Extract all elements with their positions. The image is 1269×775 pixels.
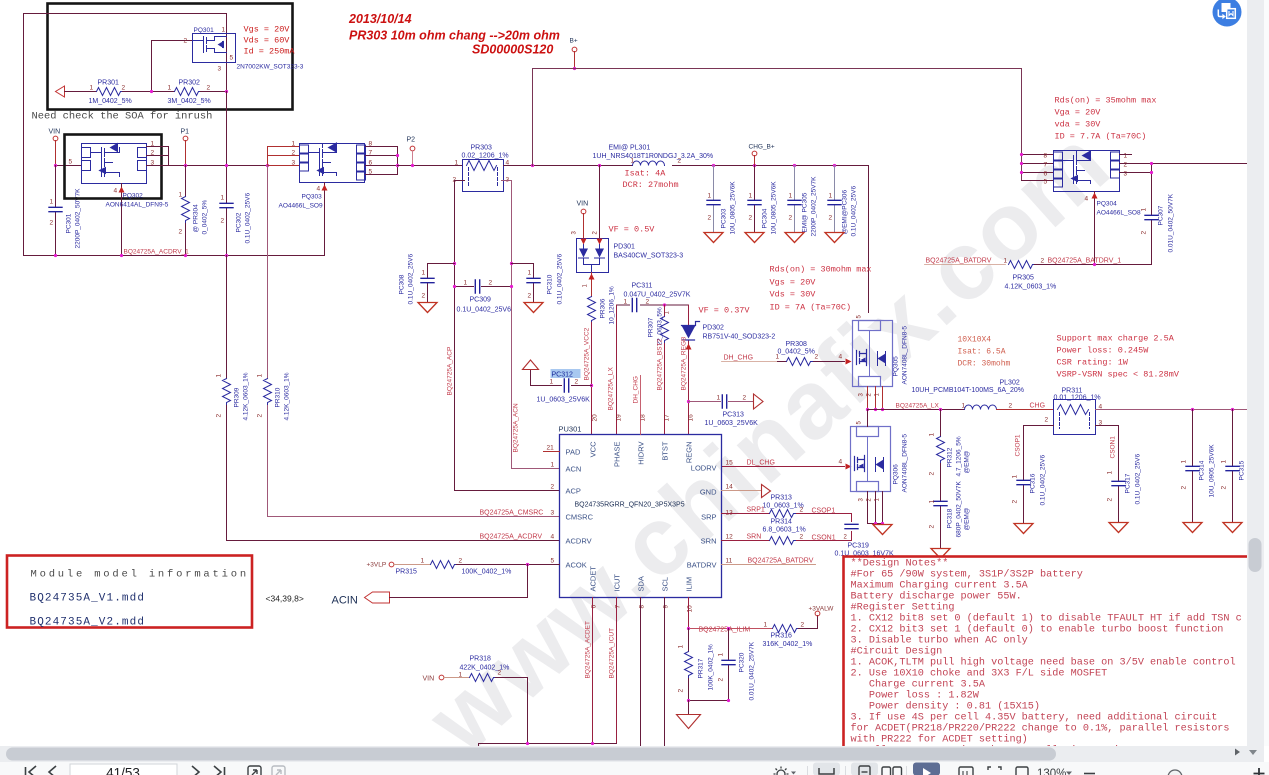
svg-text:ID = 7A (Ta=70C): ID = 7A (Ta=70C) xyxy=(770,303,852,313)
left pin names xyxy=(566,441,718,592)
junction xyxy=(687,627,690,630)
svg-text:PC301: PC301 xyxy=(66,213,73,233)
transistor PQ301 2N7002KW xyxy=(193,34,236,63)
svg-text:1: 1 xyxy=(1221,460,1228,464)
svg-text:10X10X4: 10X10X4 xyxy=(958,336,992,345)
resistor PR317 xyxy=(688,629,690,713)
svg-text:2: 2 xyxy=(929,472,936,476)
svg-text:PQ303: PQ303 xyxy=(302,194,323,201)
svg-text:HIDRV: HIDRV xyxy=(637,442,646,465)
separator xyxy=(807,766,809,775)
ground xyxy=(1014,524,1033,534)
svg-text:PR305: PR305 xyxy=(1013,275,1035,282)
svg-text:SDA: SDA xyxy=(637,576,646,591)
svg-text:AON6414AL_DFN9-5: AON6414AL_DFN9-5 xyxy=(106,202,169,209)
svg-text:1: 1 xyxy=(1107,471,1114,475)
svg-text:2: 2 xyxy=(292,150,296,157)
ground xyxy=(785,233,804,243)
wire REGN vertical xyxy=(688,305,690,435)
resistor PR303 sense xyxy=(463,160,504,192)
resistor PR311 sense xyxy=(1054,400,1096,435)
svg-text:BQ24725A_BST2: BQ24725A_BST2 xyxy=(657,338,664,390)
capacitor PC306 xyxy=(834,166,836,232)
svg-text:16: 16 xyxy=(688,414,695,422)
svg-text:2: 2 xyxy=(789,215,793,222)
capacitor PC303 xyxy=(713,166,715,232)
resistor xyxy=(264,379,272,405)
svg-text:4: 4 xyxy=(1085,196,1089,203)
svg-text:Support max charge 2.5A: Support max charge 2.5A xyxy=(1057,334,1175,344)
svg-text:RB751V-40_SOD323-2: RB751V-40_SOD323-2 xyxy=(703,334,776,341)
resistor PR304 xyxy=(185,166,187,256)
svg-text:REGN: REGN xyxy=(685,442,694,464)
svg-text:Vds = 60V: Vds = 60V xyxy=(244,36,291,46)
resistor PR306 xyxy=(588,297,596,323)
svg-text:VF = 0.37V: VF = 0.37V xyxy=(699,306,751,316)
wire HIDRV stub + DH_CHG vertical label xyxy=(640,376,642,435)
svg-text:10U_0805_25V6K: 10U_0805_25V6K xyxy=(730,181,737,235)
junction xyxy=(939,408,942,411)
svg-text:4.12K_0603_1%: 4.12K_0603_1% xyxy=(1005,284,1057,291)
op-amp U1 : charger controller PU301 xyxy=(560,435,722,598)
svg-text:EMI@ PC305: EMI@ PC305 xyxy=(802,192,809,232)
svg-text:2: 2 xyxy=(575,379,579,386)
wire LODRV to gate xyxy=(722,466,845,468)
resistor xyxy=(223,379,231,405)
zoom slider knob xyxy=(1168,770,1182,775)
net GND pin14 xyxy=(722,490,762,492)
inductor PL302 xyxy=(965,405,997,409)
svg-text:PQ302: PQ302 xyxy=(123,193,144,200)
junction xyxy=(526,563,529,566)
svg-text:PR312: PR312 xyxy=(947,447,954,467)
svg-text:CHG: CHG xyxy=(1030,403,1046,410)
svg-text:1: 1 xyxy=(1012,475,1019,479)
svg-text:ID = 7.7A (Ta=70C): ID = 7.7A (Ta=70C) xyxy=(1055,132,1147,142)
svg-text:VSRP-VSRN spec < 81.28mV: VSRP-VSRN spec < 81.28mV xyxy=(1057,370,1180,380)
svg-text:1: 1 xyxy=(464,280,468,287)
svg-text:1: 1 xyxy=(216,374,223,378)
svg-text:1: 1 xyxy=(455,160,459,167)
svg-text:1: 1 xyxy=(764,622,768,629)
svg-text:PR307: PR307 xyxy=(648,317,655,337)
wire main input rail xyxy=(56,165,82,167)
svg-text:@ PR304: @ PR304 xyxy=(193,204,200,233)
capacitor PC305 xyxy=(794,166,796,232)
svg-text:ILIM: ILIM xyxy=(685,577,694,592)
svg-text:@EMI@PC306: @EMI@PC306 xyxy=(842,189,849,234)
play/present button xyxy=(913,763,940,775)
junction xyxy=(866,408,869,411)
svg-text:PC317: PC317 xyxy=(1125,473,1132,493)
svg-text:3: 3 xyxy=(218,66,222,73)
capacitor PC320 xyxy=(689,629,729,701)
junction xyxy=(573,67,576,70)
svg-text:1: 1 xyxy=(678,645,685,649)
svg-text:BQ24725A_ILIM: BQ24725A_ILIM xyxy=(699,627,751,634)
svg-text:BQ24725A_ACDRV_1: BQ24725A_ACDRV_1 xyxy=(124,249,190,256)
svg-text:1: 1 xyxy=(708,193,712,200)
svg-text:PR315: PR315 xyxy=(396,569,418,576)
svg-text:Vgs = 20V: Vgs = 20V xyxy=(244,25,291,35)
undo icon xyxy=(248,766,261,775)
svg-text:7: 7 xyxy=(615,605,622,609)
capacitor PC317 xyxy=(1112,481,1125,485)
junction xyxy=(1191,408,1194,411)
svg-text:0_0402_5%: 0_0402_5% xyxy=(778,349,815,356)
svg-text:4: 4 xyxy=(839,354,843,361)
svg-text:SRP: SRP xyxy=(701,513,716,522)
capacitor xyxy=(934,501,947,505)
diode PD301 BAS40CW xyxy=(577,239,609,273)
svg-text:PR303: PR303 xyxy=(471,145,493,152)
svg-text:SRP1: SRP1 xyxy=(747,507,765,514)
capacitor PC307 xyxy=(1145,215,1158,219)
wire PAD stub xyxy=(544,451,560,453)
wire VIN down xyxy=(55,141,57,166)
wire ACP kelvin from PR303 pin2 xyxy=(455,181,560,491)
net CSOP1 from pin2 xyxy=(1024,426,1054,523)
watermark www.chinafix.com xyxy=(406,107,1130,774)
translate floating button xyxy=(1213,0,1242,27)
capacitor PC312 (highlighted) xyxy=(531,370,592,386)
svg-text:4.7_1206_5%: 4.7_1206_5% xyxy=(956,436,963,476)
svg-text:BQ24735A_V1.mdd: BQ24735A_V1.mdd xyxy=(30,593,146,605)
svg-text:1: 1 xyxy=(1181,460,1188,464)
svg-text:PC315: PC315 xyxy=(1239,460,1246,480)
svg-text:2: 2 xyxy=(498,670,502,677)
svg-text:Battery discharge power 55W.: Battery discharge power 55W. xyxy=(851,591,1022,603)
svg-text:BATDRV: BATDRV xyxy=(687,561,717,570)
svg-text:CSOP1: CSOP1 xyxy=(812,508,836,515)
svg-text:10_0603_1%: 10_0603_1% xyxy=(763,503,804,510)
ground PC308 xyxy=(418,303,437,313)
node junction main xyxy=(266,164,269,167)
svg-text:<34,39,8>: <34,39,8> xyxy=(266,594,304,604)
svg-text:2: 2 xyxy=(184,38,188,45)
svg-text:PR309: PR309 xyxy=(234,387,241,407)
svg-text:Isat: 4A: Isat: 4A xyxy=(625,169,667,179)
svg-text:VF = 0.5V: VF = 0.5V xyxy=(609,225,656,235)
node source junction xyxy=(225,90,228,93)
svg-text:Isat: 6.5A: Isat: 6.5A xyxy=(958,348,1006,357)
svg-text:PR318: PR318 xyxy=(470,656,492,663)
resistor xyxy=(937,437,945,463)
svg-text:3: 3 xyxy=(151,160,155,167)
svg-text:Vga = 20V: Vga = 20V xyxy=(1055,108,1102,118)
svg-text:0.1U_0402_25V6: 0.1U_0402_25V6 xyxy=(557,254,564,305)
svg-text:2. CX12 bit3 set 1 (default 0): 2. CX12 bit3 set 1 (default 0) to enable… xyxy=(851,624,1224,636)
svg-text:1: 1 xyxy=(1141,208,1148,212)
svg-text:1: 1 xyxy=(624,299,628,306)
svg-text:DL_CHG: DL_CHG xyxy=(747,460,775,467)
wire PQ301 source to PR302 xyxy=(226,63,228,92)
svg-text:2: 2 xyxy=(749,215,753,222)
resistor PR307 xyxy=(661,317,669,343)
svg-text:ACN: ACN xyxy=(566,465,582,474)
wire BTST vertical xyxy=(664,305,666,435)
svg-text:0.01U_0402_25V7K: 0.01U_0402_25V7K xyxy=(749,641,756,700)
terminal xyxy=(439,675,444,680)
transistor PQ305 AON7408L xyxy=(853,321,893,387)
wire gate from PR301/PR302 junction xyxy=(152,41,193,92)
svg-text:1: 1 xyxy=(550,379,554,386)
svg-text:AO4466L_SO9: AO4466L_SO9 xyxy=(279,203,323,210)
svg-text:PC309: PC309 xyxy=(470,297,492,304)
wire LX rail xyxy=(868,409,965,411)
svg-text:VIN: VIN xyxy=(423,676,435,683)
svg-text:Power loss: 0.245W: Power loss: 0.245W xyxy=(1057,346,1150,356)
black frame box PQ302 xyxy=(65,135,162,199)
svg-text:Need check the SOA for inrush: Need check the SOA for inrush xyxy=(32,111,213,123)
svg-text:DCR: 30mohm: DCR: 30mohm xyxy=(958,360,1011,369)
terminal xyxy=(410,146,415,151)
svg-text:BQ24725A_ACDRV: BQ24725A_ACDRV xyxy=(480,534,543,541)
svg-text:2: 2 xyxy=(122,85,126,92)
capacitor PC315 xyxy=(1232,410,1234,522)
svg-text:PC303: PC303 xyxy=(721,208,728,228)
junction xyxy=(687,699,690,702)
ground xyxy=(825,233,844,243)
svg-text:PU301: PU301 xyxy=(559,425,582,434)
wire output to right edge xyxy=(1096,409,1247,411)
svg-text:PC304: PC304 xyxy=(762,208,769,228)
svg-text:B+: B+ xyxy=(570,38,578,45)
horizontal scrollbar track xyxy=(0,746,1264,762)
capacitor PC309 xyxy=(455,286,512,288)
svg-text:2: 2 xyxy=(459,558,463,565)
svg-text:2: 2 xyxy=(551,484,555,491)
single page button (active) xyxy=(851,763,878,775)
svg-text:2: 2 xyxy=(829,215,833,222)
separator xyxy=(906,766,908,775)
svg-text:4.12K_0603_1%: 4.12K_0603_1% xyxy=(284,372,291,420)
junction xyxy=(526,742,529,745)
svg-text:DH_CHG: DH_CHG xyxy=(724,355,754,362)
wire main rail to P1 xyxy=(169,165,268,167)
transistor PQ304 AO4466L xyxy=(1054,151,1120,192)
capacitor PC319 xyxy=(845,524,858,528)
svg-text:2: 2 xyxy=(179,229,183,236)
svg-text:#Register Setting: #Register Setting xyxy=(851,602,955,614)
svg-text:2: 2 xyxy=(801,622,805,629)
resistor PR305 xyxy=(1009,261,1035,269)
svg-text:5: 5 xyxy=(230,55,234,62)
vertical scrollbar track xyxy=(1247,0,1264,746)
svg-text:6.8_0603_1%: 6.8_0603_1% xyxy=(763,527,806,534)
svg-text:1: 1 xyxy=(776,354,780,361)
resistor xyxy=(431,561,457,569)
svg-text:SD00000S120: SD00000S120 xyxy=(472,43,553,57)
svg-text:1U_0603_25V6K: 1U_0603_25V6K xyxy=(537,397,591,404)
svg-text:0.1U_0402_25V6: 0.1U_0402_25V6 xyxy=(408,254,415,305)
svg-text:1: 1 xyxy=(528,270,532,277)
svg-text:CHG_B+: CHG_B+ xyxy=(749,144,775,151)
svg-text:for ACDET(PR218/PR220/PR222 ch: for ACDET(PR218/PR220/PR222 change to 0.… xyxy=(851,723,1230,735)
actual size icon xyxy=(959,767,973,775)
two page button xyxy=(882,767,902,775)
resistor xyxy=(770,537,796,545)
svg-text:BTST: BTST xyxy=(661,441,670,461)
svg-text:BQ24725A_LX: BQ24725A_LX xyxy=(896,403,940,410)
junction xyxy=(1150,162,1153,165)
svg-text:PC314: PC314 xyxy=(1199,460,1206,480)
svg-text:PR313: PR313 xyxy=(771,495,793,502)
svg-text:Charge current 3.5A: Charge current 3.5A xyxy=(851,679,986,691)
svg-text:PHASE: PHASE xyxy=(613,442,622,467)
svg-text:PQ301: PQ301 xyxy=(194,27,215,34)
svg-text:PQ306: PQ306 xyxy=(893,464,900,485)
svg-text:BQ24735RGRR_QFN20_3P5X3P5: BQ24735RGRR_QFN20_3P5X3P5 xyxy=(575,502,685,509)
svg-text:AO4466L_SO8: AO4466L_SO8 xyxy=(1097,210,1141,217)
svg-text:6: 6 xyxy=(1044,171,1048,178)
svg-text:11: 11 xyxy=(726,558,733,565)
svg-text:CSR rating: 1W: CSR rating: 1W xyxy=(1057,358,1129,368)
resistor PR308 xyxy=(778,361,845,363)
svg-text:7: 7 xyxy=(1044,162,1048,169)
wire ACDRV bus xyxy=(24,255,325,257)
svg-text:SRN: SRN xyxy=(701,537,717,546)
svg-text:PC313: PC313 xyxy=(723,412,745,419)
svg-text:0.1U_0402_25V6: 0.1U_0402_25V6 xyxy=(1135,454,1142,505)
svg-text:3. If use 4S per cell 4.35V ba: 3. If use 4S per cell 4.35V battery, nee… xyxy=(851,712,1218,724)
junction xyxy=(874,522,877,525)
black frame box (inrush checker) xyxy=(48,4,293,110)
power symbol up xyxy=(523,360,539,370)
svg-text:PR302: PR302 xyxy=(179,80,201,87)
svg-text:2: 2 xyxy=(815,354,819,361)
svg-text:Vds = 30V: Vds = 30V xyxy=(770,290,817,300)
net SDA vertical xyxy=(640,598,642,746)
terminal xyxy=(581,209,586,214)
ground xyxy=(931,549,950,559)
svg-text:PC302: PC302 xyxy=(236,212,243,232)
svg-text:2. Use 10X10 choke and 3X3 F/L: 2. Use 10X10 choke and 3X3 F/L side MOSF… xyxy=(851,668,1108,680)
capacitor PC302 xyxy=(226,92,228,256)
svg-text:PAD: PAD xyxy=(566,448,581,457)
capacitor PC311 xyxy=(632,299,636,312)
svg-text:Vgs = 20V: Vgs = 20V xyxy=(770,278,817,288)
pin stubs PQ302 right xyxy=(147,147,169,166)
svg-text:2: 2 xyxy=(1141,231,1148,235)
svg-text:12: 12 xyxy=(726,534,734,541)
net SRP pin13 / resistor PR314a xyxy=(722,514,852,522)
svg-text:2: 2 xyxy=(800,534,804,541)
svg-text:422K_0402_1%: 422K_0402_1% xyxy=(460,665,510,672)
svg-text:#Circuit Design: #Circuit Design xyxy=(851,646,943,658)
svg-text:BQ24725A_BATDRV: BQ24725A_BATDRV xyxy=(926,258,992,265)
svg-text:0.1U_0402_25V6: 0.1U_0402_25V6 xyxy=(457,307,512,314)
wire PQ301 drain stub xyxy=(226,14,228,63)
svg-text:AON7408L_DFN8-5: AON7408L_DFN8-5 xyxy=(902,434,909,493)
svg-text:BQ24725A_REGB: BQ24725A_REGB xyxy=(681,337,688,391)
capacitor PC316 xyxy=(1017,480,1030,484)
svg-text:2: 2 xyxy=(1107,498,1114,502)
first page button xyxy=(26,766,37,775)
wire PQ302 source down xyxy=(121,184,123,256)
svg-text:BQ24725A_ACP: BQ24725A_ACP xyxy=(447,347,454,396)
redo icon (disabled) xyxy=(272,766,285,775)
wires PQ305 bottom pins xyxy=(868,387,883,410)
svg-text:@EM@: @EM@ xyxy=(964,450,971,473)
wire PHASE vertical xyxy=(616,305,618,435)
svg-text:10UH_PCMB104T-100MS_6A_20%: 10UH_PCMB104T-100MS_6A_20% xyxy=(912,387,1024,394)
ground xyxy=(1109,523,1128,533)
svg-text:BQ24725A_BATDRV: BQ24725A_BATDRV xyxy=(748,558,814,565)
svg-text:2N7002KW_SOT323-3: 2N7002KW_SOT323-3 xyxy=(237,64,304,71)
svg-text:**Design Notes**: **Design Notes** xyxy=(851,558,949,570)
svg-text:6: 6 xyxy=(591,605,598,609)
svg-text:PC308: PC308 xyxy=(399,274,406,294)
svg-text:1: 1 xyxy=(257,374,264,378)
svg-text:2: 2 xyxy=(1221,486,1228,490)
svg-text:PL302: PL302 xyxy=(1000,380,1020,387)
wire B+ bus xyxy=(533,69,1022,181)
net SRN pin12 / resistor PR314b xyxy=(722,532,852,541)
pin stubs PQ303 left xyxy=(268,147,300,166)
net CSON1 from pin3 xyxy=(1096,426,1119,522)
junction xyxy=(225,164,228,167)
svg-text:@EM@: @EM@ xyxy=(964,507,971,530)
capacitor PC310 xyxy=(512,264,534,302)
transistor PQ302 AON6414AL xyxy=(82,144,147,184)
svg-text:1: 1 xyxy=(50,199,54,206)
svg-text:BQ24725A_LX: BQ24725A_LX xyxy=(608,366,615,410)
svg-text:VCC: VCC xyxy=(589,441,598,457)
svg-text:2: 2 xyxy=(800,507,804,514)
last page button xyxy=(214,766,225,775)
terminal xyxy=(815,611,820,616)
svg-text:PC311: PC311 xyxy=(632,283,653,290)
junction xyxy=(663,303,666,306)
svg-text:3. Disable turbo when AC only: 3. Disable turbo when AC only xyxy=(851,635,1028,647)
svg-text:1: 1 xyxy=(789,193,793,200)
svg-text:PR314: PR314 xyxy=(771,519,793,526)
junction xyxy=(1020,153,1023,156)
svg-text:BQ24725A_CMSRC: BQ24725A_CMSRC xyxy=(480,510,544,517)
svg-text:PC319: PC319 xyxy=(848,543,870,550)
svg-text:DCR: 27mohm: DCR: 27mohm xyxy=(623,180,679,190)
inductor PL301 xyxy=(633,161,665,166)
svg-text:PC310: PC310 xyxy=(547,274,554,294)
svg-text:Power loss : 1.82W: Power loss : 1.82W xyxy=(851,690,980,702)
svg-text:100K_0402_1%: 100K_0402_1% xyxy=(462,569,512,576)
svg-text:10_1206_1%: 10_1206_1% xyxy=(609,286,616,325)
svg-text:#For 65 /90W system, 3S1P/3S2P: #For 65 /90W system, 3S1P/3S2P battery xyxy=(851,569,1083,581)
svg-text:2: 2 xyxy=(221,218,225,225)
junction xyxy=(590,384,593,387)
wire main rail PR303 to PQ305 xyxy=(504,166,869,313)
svg-text:PR311: PR311 xyxy=(1062,388,1083,395)
zoom out xyxy=(1084,773,1095,775)
svg-text:Module model information: Module model information xyxy=(31,569,249,581)
svg-text:P1: P1 xyxy=(181,129,190,136)
open arrow left (inrush input) xyxy=(56,86,65,97)
net BATDRV pin11 xyxy=(722,564,816,566)
svg-text:Id = 250mA: Id = 250mA xyxy=(244,47,296,57)
terminal xyxy=(572,47,577,52)
node junction gate xyxy=(150,90,153,93)
svg-text:1: 1 xyxy=(179,192,183,199)
svg-text:3M_0402_5%: 3M_0402_5% xyxy=(168,98,211,105)
svg-text:1: 1 xyxy=(421,558,425,565)
svg-text:2: 2 xyxy=(708,215,712,222)
wire arrow to PR301 xyxy=(65,91,97,93)
wire VCC2 down to chip xyxy=(591,323,593,435)
junction xyxy=(396,154,399,157)
terminal xyxy=(752,151,757,156)
resistor PR301 xyxy=(97,88,123,96)
